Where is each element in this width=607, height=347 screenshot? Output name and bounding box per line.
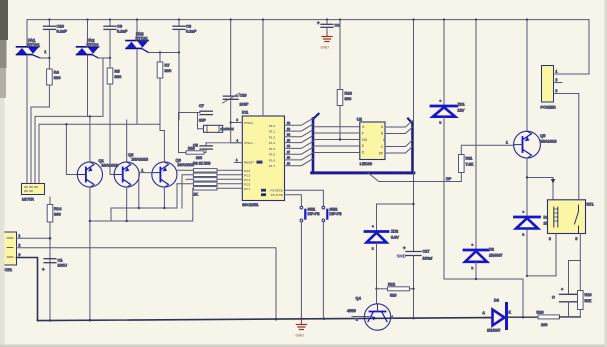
svg-text:2: 2 bbox=[356, 318, 358, 322]
svg-text:7.6K: 7.6K bbox=[466, 163, 474, 167]
wire staircase h208 bbox=[111, 184, 177, 221]
wire Q3 base column bbox=[139, 173, 153, 208]
svg-text:Q4: Q4 bbox=[356, 296, 362, 301]
wire crystal left return bbox=[178, 113, 180, 153]
wire POWER pin3 to relay bbox=[554, 94, 579, 200]
wire top power rail bbox=[27, 19, 589, 21]
capacitor C19 trimmer bbox=[223, 93, 249, 107]
relay RT1 bbox=[548, 200, 594, 241]
svg-text:11.0592M: 11.0592M bbox=[221, 127, 235, 131]
svg-text:1: 1 bbox=[392, 316, 394, 320]
svg-text:C17: C17 bbox=[423, 250, 430, 254]
wire FA2 gate h bbox=[99, 57, 111, 59]
svg-text:R7: R7 bbox=[165, 63, 171, 68]
wire FA2 MT1 down and staircase bbox=[35, 56, 103, 184]
svg-text:1: 1 bbox=[142, 169, 144, 173]
wire relay switch pin down bbox=[579, 234, 581, 261]
svg-text:MOTR: MOTR bbox=[22, 197, 34, 202]
svg-text:ZD2: ZD2 bbox=[391, 230, 398, 234]
svg-text:IC1: IC1 bbox=[242, 110, 249, 115]
wire RESET stub bbox=[235, 162, 243, 164]
connector MOTOR bbox=[22, 184, 45, 202]
resistor network row3 bbox=[193, 178, 217, 181]
svg-text:SMD: SMD bbox=[397, 254, 406, 259]
svg-text:DIP-PB: DIP-PB bbox=[330, 212, 343, 216]
resistor R14 bbox=[47, 197, 62, 320]
wire R4 staircase to motor pin2 bbox=[31, 107, 49, 184]
svg-text:GND: GND bbox=[296, 334, 305, 338]
node FA1 gate/C10 junction bbox=[48, 57, 50, 59]
wire FA3 top drop bbox=[136, 20, 138, 40]
capacitor C8 bbox=[173, 20, 197, 53]
triac FA1 bbox=[17, 38, 47, 58]
svg-text:P1.0: P1.0 bbox=[269, 124, 276, 128]
wire connector pin2 long net bbox=[17, 248, 277, 320]
svg-text:P3.3: P3.3 bbox=[244, 173, 251, 177]
triac FA2 bbox=[77, 38, 100, 58]
svg-text:390: 390 bbox=[54, 75, 61, 80]
wire FA2 top drop bbox=[87, 20, 89, 46]
svg-text:P3.0RXD: P3.0RXD bbox=[270, 189, 283, 193]
svg-text:R15: R15 bbox=[188, 147, 195, 151]
wire POWER pin2 stub bbox=[554, 82, 563, 84]
wire MCU P3.1 TXD to SW bbox=[285, 195, 302, 207]
wire bus thick U bbox=[312, 114, 414, 173]
svg-text:P3.1TXD: P3.1TXD bbox=[271, 193, 284, 197]
wire row3 left stub bbox=[186, 178, 193, 180]
resistor network row4 bbox=[193, 182, 217, 185]
node bottom rail junction dots bbox=[49, 317, 415, 322]
capacitor C18 electrolytic bbox=[552, 261, 578, 317]
wire Q2 emitter staircase bbox=[126, 187, 128, 221]
svg-text:+: + bbox=[42, 267, 45, 272]
wire SW1 to rail bbox=[300, 222, 302, 319]
op U2 7seg display LED10 bbox=[357, 117, 386, 167]
wire FA1 top drop bbox=[26, 20, 28, 46]
capacitor C7 bbox=[179, 104, 213, 129]
svg-text:R10: R10 bbox=[585, 293, 592, 297]
wire XTAL2 feed with trimmer bbox=[230, 20, 232, 96]
svg-text:P1.6: P1.6 bbox=[269, 158, 276, 162]
resistor R13 bbox=[337, 20, 352, 141]
capacitor C9 bbox=[104, 20, 128, 58]
op IC1 microcontroller 89C2051 bbox=[242, 110, 285, 208]
svg-text:BT131: BT131 bbox=[28, 43, 41, 48]
resistor R7 bbox=[157, 53, 172, 131]
wire relay coil bottom return bbox=[527, 234, 556, 276]
svg-text:R12: R12 bbox=[388, 283, 395, 287]
wire FA1 MT1 down to motor pin1 bbox=[26, 56, 28, 184]
svg-text:P1.5: P1.5 bbox=[269, 153, 276, 157]
resistor R4 bbox=[47, 58, 62, 107]
wire ZD2 frame bbox=[377, 204, 414, 231]
svg-text:CM: CM bbox=[362, 138, 367, 142]
resistor R8 network row1 bbox=[193, 169, 217, 172]
ground bottom GND symbol bbox=[296, 319, 307, 338]
svg-text:390: 390 bbox=[165, 68, 172, 73]
svg-text:3: 3 bbox=[549, 237, 551, 241]
svg-text:2: 2 bbox=[556, 78, 558, 82]
ground top GND symbol bbox=[321, 32, 333, 50]
svg-text:GND: GND bbox=[321, 46, 330, 50]
svg-text:P1.7: P1.7 bbox=[269, 164, 276, 168]
wire MCU VCC drop pin20 bbox=[262, 20, 264, 116]
capacitor C1 bbox=[42, 258, 67, 273]
svg-text:D2: D2 bbox=[489, 248, 494, 252]
svg-text:E: E bbox=[362, 144, 364, 148]
svg-text:P3.4: P3.4 bbox=[244, 178, 251, 182]
svg-text:+: + bbox=[317, 21, 320, 26]
svg-text:100: 100 bbox=[541, 323, 547, 327]
svg-text:ZD1: ZD1 bbox=[458, 103, 465, 107]
svg-text:R11: R11 bbox=[466, 157, 473, 161]
crystal Y1 bbox=[198, 125, 235, 132]
svg-text:R5: R5 bbox=[115, 69, 121, 74]
transistor Q4 bbox=[347, 289, 394, 330]
wire MCU P1 stubs and bus entries bbox=[285, 118, 314, 165]
svg-text:300: 300 bbox=[196, 156, 202, 160]
transistor Q2 bbox=[114, 152, 149, 187]
transistor Q5 bbox=[506, 20, 557, 158]
svg-text:390: 390 bbox=[115, 74, 122, 79]
svg-text:R8 1K 5K6: R8 1K 5K6 bbox=[193, 162, 210, 166]
svg-text:D6: D6 bbox=[494, 299, 499, 303]
svg-text:3: 3 bbox=[556, 89, 558, 93]
wire Q1 emitter to bottom rail bbox=[89, 187, 91, 320]
wire FA3 MT1 down and staircase to motor pin4 bbox=[39, 50, 160, 184]
svg-text:C4: C4 bbox=[335, 24, 340, 28]
switch SW2 push button bbox=[322, 206, 342, 222]
wire trimmer to XTAL pins bbox=[231, 100, 243, 143]
svg-text:0.1uF: 0.1uF bbox=[117, 29, 128, 34]
svg-text:SW1: SW1 bbox=[308, 208, 316, 212]
capacitor C17 SMD bbox=[397, 246, 433, 261]
svg-text:DIP-PB: DIP-PB bbox=[308, 212, 321, 216]
wire DP net bbox=[368, 173, 461, 182]
diode D6 1N4007 bbox=[483, 299, 539, 333]
svg-text:P3.7: P3.7 bbox=[244, 187, 251, 191]
svg-text:P1.1: P1.1 bbox=[269, 130, 276, 134]
wire POWER pin1 bbox=[554, 73, 590, 75]
svg-text:LED10: LED10 bbox=[360, 161, 373, 166]
svg-text:1: 1 bbox=[19, 234, 21, 238]
resistor R10 bbox=[578, 261, 592, 317]
wire Q1 base from staircase bbox=[66, 124, 77, 174]
svg-text:DP: DP bbox=[446, 177, 452, 181]
wire staircase h221 bbox=[90, 188, 193, 221]
svg-text:30P: 30P bbox=[199, 119, 206, 123]
svg-text:390: 390 bbox=[345, 96, 352, 101]
svg-text:2SA1013: 2SA1013 bbox=[540, 139, 557, 144]
capacitor C5 bbox=[193, 143, 242, 153]
resistor R16 bbox=[537, 311, 581, 328]
svg-text:RESET: RESET bbox=[244, 161, 254, 165]
svg-text:2SA1013: 2SA1013 bbox=[132, 157, 149, 162]
resistor network row5 bbox=[193, 187, 217, 190]
transistor Q1 bbox=[77, 158, 118, 187]
svg-text:P1.2: P1.2 bbox=[269, 135, 276, 139]
resistor R9 network row2 bbox=[193, 173, 217, 176]
wire row2 left stub bbox=[182, 175, 193, 208]
svg-text:R16: R16 bbox=[537, 311, 544, 315]
wire 7seg right feeds with bus entries bbox=[385, 121, 413, 154]
resistor R11 bbox=[459, 145, 514, 181]
svg-text:DP: DP bbox=[379, 151, 383, 155]
connector CZ1 bbox=[4, 232, 21, 272]
transistor Q3 bbox=[152, 158, 195, 188]
svg-text:1: 1 bbox=[556, 70, 558, 74]
node FA2 gate junction bbox=[109, 57, 111, 59]
svg-text:0.1uF: 0.1uF bbox=[57, 29, 68, 34]
svg-text:2: 2 bbox=[19, 244, 21, 248]
svg-text:P3.5: P3.5 bbox=[244, 182, 251, 186]
wire Q2 top bbox=[126, 120, 128, 162]
svg-text:4550: 4550 bbox=[347, 308, 357, 313]
svg-text:U2: U2 bbox=[357, 117, 363, 122]
wire cap R10 branch top bar bbox=[569, 260, 581, 262]
svg-text:0.1uF: 0.1uF bbox=[186, 29, 197, 34]
svg-text:100U: 100U bbox=[58, 263, 68, 268]
wire bottom rail bbox=[38, 318, 492, 321]
svg-text:C: C bbox=[552, 296, 555, 300]
capacitor C4 electrolytic at rail bbox=[317, 20, 339, 32]
node junction dots on top rail bbox=[48, 18, 528, 20]
svg-text:RT1: RT1 bbox=[587, 203, 594, 207]
wire rows to MCU pins bbox=[217, 170, 242, 188]
svg-text:XTAL1: XTAL1 bbox=[244, 141, 253, 145]
svg-text:XTAL2: XTAL2 bbox=[244, 121, 253, 125]
svg-text:5: 5 bbox=[576, 237, 578, 241]
diode D2 1N4007 bbox=[464, 20, 502, 279]
svg-text:89C2051: 89C2051 bbox=[242, 202, 259, 207]
svg-text:B: B bbox=[381, 132, 383, 136]
svg-text:1: 1 bbox=[506, 141, 508, 145]
svg-text:R4: R4 bbox=[54, 70, 60, 75]
wire FA1 gate h bbox=[40, 57, 49, 59]
svg-text:3: 3 bbox=[19, 253, 21, 257]
connector POWER bbox=[541, 66, 558, 110]
resistor R5 bbox=[107, 58, 122, 175]
svg-text:100P: 100P bbox=[240, 103, 249, 107]
svg-text:+: + bbox=[403, 246, 406, 251]
diode ZD2 zener bbox=[365, 224, 399, 251]
svg-text:P3.2: P3.2 bbox=[244, 169, 251, 173]
wire FA3 gate h to C8 column bbox=[149, 52, 180, 54]
svg-text:P1.4: P1.4 bbox=[269, 147, 276, 151]
svg-text:1N4007: 1N4007 bbox=[487, 329, 500, 333]
wire main column x413 bbox=[413, 20, 415, 251]
svg-text:CZ1: CZ1 bbox=[5, 267, 13, 272]
svg-text:Q5: Q5 bbox=[540, 133, 546, 138]
wire connector pin1 to R14 column bbox=[17, 237, 51, 239]
svg-text:3.6V: 3.6V bbox=[391, 236, 399, 240]
svg-text:100uf: 100uf bbox=[423, 257, 433, 261]
wire ZD2 to Q4 collector bbox=[376, 243, 378, 289]
wire C8 column continues down bbox=[178, 53, 180, 121]
svg-text:390: 390 bbox=[54, 212, 61, 217]
svg-text:C7: C7 bbox=[199, 104, 204, 108]
svg-text:F: F bbox=[362, 131, 364, 135]
svg-text:R14: R14 bbox=[54, 206, 62, 211]
svg-text:SW2: SW2 bbox=[330, 208, 338, 212]
resistor R15 bbox=[179, 147, 207, 161]
diode D10 zener parallel coil bbox=[515, 210, 557, 278]
wire Q3 emitter staircase bbox=[163, 187, 165, 208]
wire MCU P3.0 RXD to SW bbox=[285, 190, 324, 206]
svg-text:1: 1 bbox=[45, 50, 47, 54]
resistor R12 bbox=[377, 283, 415, 298]
node R7 top junction bbox=[159, 51, 161, 53]
svg-text:C19: C19 bbox=[240, 94, 247, 98]
wire rail right end drop to POWER pin1 bbox=[554, 20, 590, 74]
wire 7seg left feeds bbox=[313, 127, 360, 153]
svg-text:510: 510 bbox=[390, 294, 396, 298]
triac FA3 bbox=[126, 32, 149, 53]
svg-text:51K: 51K bbox=[585, 299, 592, 303]
svg-text:1N4007: 1N4007 bbox=[489, 254, 502, 258]
wire SW2 to rail bbox=[322, 222, 324, 319]
node C8 gate junction bbox=[178, 51, 180, 53]
wire zener return h279 to rail bbox=[444, 279, 523, 317]
diode ZD1 zener 12V bbox=[431, 20, 465, 279]
wire connector pin3 to bottom rail corner bbox=[17, 258, 38, 321]
capacitor C10 bbox=[44, 20, 68, 58]
svg-text:BT131: BT131 bbox=[87, 43, 100, 48]
svg-text:1K: 1K bbox=[193, 193, 198, 197]
switch SW1 push button bbox=[300, 206, 320, 222]
svg-text:POWER: POWER bbox=[541, 105, 556, 110]
svg-text:P1.3: P1.3 bbox=[269, 141, 276, 145]
svg-text:12V: 12V bbox=[458, 109, 465, 113]
wire Q1 top bbox=[89, 116, 91, 162]
wire Q5 emitter down and branch to relay bbox=[526, 158, 528, 216]
wire row1 left stub bbox=[178, 169, 194, 171]
wire row4 left link bbox=[177, 183, 193, 185]
svg-text:R13: R13 bbox=[345, 91, 353, 96]
wire R7 to Q3 top bbox=[160, 131, 164, 163]
